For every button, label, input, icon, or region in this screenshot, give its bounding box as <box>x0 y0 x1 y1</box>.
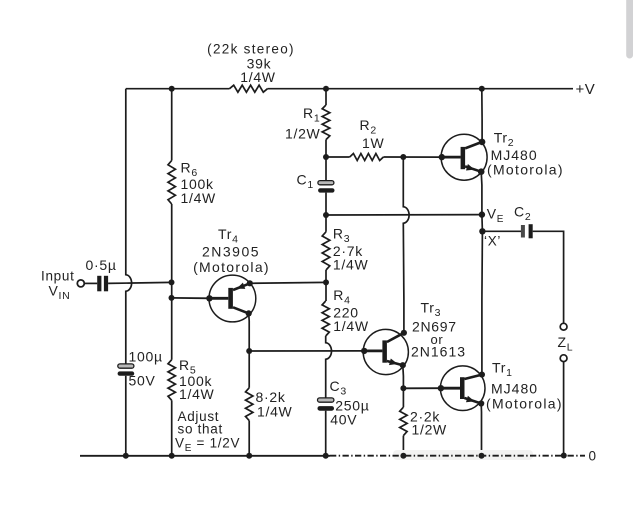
svg-text:1/4W: 1/4W <box>257 404 293 420</box>
label 8.2k value <box>256 389 293 420</box>
wire rail to R6 <box>171 89 173 161</box>
transistor Tr3 2N697 <box>361 329 408 374</box>
wire R2 node down to hop <box>402 157 404 208</box>
wire Tr4 collector down <box>248 313 251 351</box>
wire Tr3 emitter down <box>402 365 405 388</box>
node VE <box>479 211 485 217</box>
capacitor 0.5u <box>97 276 108 292</box>
svg-text:(22k stereo): (22k stereo) <box>207 42 295 57</box>
capacitor C1 <box>318 181 335 193</box>
junction 0V/left rail <box>123 453 129 459</box>
wire 8.2k to 0V rail <box>248 421 250 456</box>
label R2 value <box>362 135 384 151</box>
junction R1/R2/C1 <box>323 154 329 160</box>
label R2 <box>360 117 377 137</box>
capacitor 100u 50V <box>118 364 135 376</box>
svg-text:1/4W: 1/4W <box>179 386 215 402</box>
svg-text:MJ480: MJ480 <box>491 381 538 397</box>
junction Tr3 emitter/2.2k/Tr1 base <box>400 385 406 391</box>
wire +V supply rail <box>126 88 573 90</box>
junction 0V/C3 <box>323 453 329 459</box>
junction 0V/Tr1 emitter <box>479 453 485 459</box>
resistor 2.2k <box>400 407 407 435</box>
wire R3 to R4 <box>325 270 327 301</box>
wire hop to C3 <box>325 359 327 399</box>
wire 100u cap to 0V rail <box>125 376 127 456</box>
label R3 <box>333 226 350 246</box>
svg-text:40V: 40V <box>330 412 357 428</box>
resistor R1 <box>322 105 330 140</box>
label 0.5u value <box>86 257 117 273</box>
svg-text:Input: Input <box>41 269 75 284</box>
wire left rail upper <box>125 89 127 276</box>
watermark smudge <box>393 450 533 460</box>
node Tr4 base junction <box>169 295 175 301</box>
wire Tr4 emitter to R3/R4 node <box>250 281 326 284</box>
terminal ZL bottom <box>560 355 567 362</box>
label C3 <box>330 378 347 398</box>
wire X to C2 <box>482 230 521 232</box>
wire C 0.5u to bias node <box>108 282 171 283</box>
svg-text:+V: +V <box>576 81 596 98</box>
svg-text:1/4W: 1/4W <box>181 190 217 206</box>
junction 0V/2.2k <box>400 453 406 459</box>
junction rail/R1 <box>323 86 329 92</box>
wire rail to R1 <box>325 89 327 105</box>
wire R4 to hop <box>325 336 327 344</box>
wire R3 top <box>325 215 327 232</box>
wire R2 to Tr2 base <box>383 156 441 158</box>
svg-text:1/2W: 1/2W <box>285 126 321 142</box>
wire left rail to C 100u <box>125 291 127 365</box>
wire rail to Tr2 collector <box>481 89 483 142</box>
transistor Tr1 MJ480 <box>438 366 485 411</box>
wire hop over Tr3 base line <box>326 343 332 359</box>
wire node to R2 <box>326 156 350 158</box>
wire Tr3 emitter to Tr1 base <box>403 387 441 389</box>
label Tr3 type <box>411 319 466 360</box>
label Tr1 type <box>486 381 563 412</box>
svg-text:100µ: 100µ <box>129 349 163 365</box>
svg-text:0: 0 <box>589 449 597 464</box>
label R4 value <box>333 305 369 335</box>
junction rail/Tr2 collector <box>479 86 485 92</box>
wire hop over input line <box>126 275 132 291</box>
terminal input <box>77 280 84 287</box>
capacitor C3 <box>318 398 335 411</box>
svg-text:2N1613: 2N1613 <box>411 344 466 360</box>
label Tr4 <box>218 226 239 246</box>
svg-text:1/4W: 1/4W <box>240 69 276 85</box>
node X <box>479 228 485 234</box>
terminal ZL top <box>560 323 567 330</box>
load ZL label <box>558 334 574 354</box>
svg-text:50V: 50V <box>129 373 156 389</box>
wire hop over VE line <box>403 207 409 223</box>
wire X node to Tr1 collector <box>481 231 484 374</box>
label C1 <box>297 172 314 192</box>
label Tr3 <box>421 300 442 320</box>
svg-text:‘X’: ‘X’ <box>484 234 501 249</box>
junction 0V/R5 <box>169 453 175 459</box>
resistor R5 <box>168 360 175 401</box>
label R5 <box>179 357 196 377</box>
resistor R3 <box>322 232 330 270</box>
wire R1 to R2 node <box>325 140 327 157</box>
svg-text:1/4W: 1/4W <box>333 257 369 273</box>
wire C2 to ZL <box>533 231 564 323</box>
wire 2.2k to 0V rail <box>402 436 404 456</box>
resistor R6 <box>168 161 175 205</box>
junction 0V/8.2k <box>246 453 252 459</box>
label 50V value <box>129 373 156 389</box>
label Tr4 type <box>193 244 270 276</box>
resistor 39k (22k stereo) <box>230 85 268 92</box>
label R5 value <box>179 373 215 402</box>
resistor 8.2k <box>246 388 253 421</box>
label R6 <box>181 160 198 180</box>
label R1 value <box>285 126 321 142</box>
resistor R2 <box>350 154 384 161</box>
label R4 <box>333 287 350 307</box>
label R6 value <box>181 176 217 206</box>
wire node to 2.2k <box>402 388 404 407</box>
wire Tr2 emitter to VE node <box>480 172 483 215</box>
wire C3 to 0V rail <box>325 411 327 456</box>
label R3 value <box>333 243 369 273</box>
label R1 <box>303 105 320 125</box>
wire 0V rail dashed <box>330 455 585 457</box>
label adjust note <box>175 409 240 454</box>
svg-text:(Motorola): (Motorola) <box>193 259 270 275</box>
wire R5 to 0V rail <box>171 400 173 456</box>
label 100u value <box>129 349 163 365</box>
label X <box>484 234 501 249</box>
svg-text:1/2W: 1/2W <box>412 422 448 438</box>
wire Tr1 emitter to 0V rail <box>480 404 482 456</box>
wire R6 to R5 <box>171 204 173 360</box>
label Input <box>41 269 75 284</box>
svg-text:2N3905: 2N3905 <box>202 244 260 260</box>
label 2.2k value <box>410 409 447 438</box>
transistor Tr2 MJ480 <box>439 134 488 180</box>
wire ZL to 0V rail <box>563 362 565 456</box>
node +V label <box>576 81 596 98</box>
label Tr2 <box>494 130 515 150</box>
svg-text:0·5µ: 0·5µ <box>86 257 117 273</box>
junction 0V/ZL <box>561 453 567 459</box>
node input/bias junction <box>169 279 175 285</box>
wire Tr4 collector to Tr3 base <box>249 350 364 352</box>
resistor R4 <box>322 301 329 336</box>
junction R3/R4/Tr4 emitter <box>323 279 329 285</box>
junction rail/R6 <box>169 86 175 92</box>
svg-text:(Motorola): (Motorola) <box>486 396 563 412</box>
wire bias node to Tr4 base <box>172 297 211 299</box>
wire node to 8.2k <box>248 351 250 388</box>
junction C1/R3 <box>323 212 329 218</box>
wire VE to X <box>481 215 484 232</box>
label C2 <box>514 204 531 224</box>
svg-text:1W: 1W <box>362 135 384 151</box>
label C3 value <box>330 398 369 428</box>
label Tr1 <box>492 360 513 380</box>
label Tr2 type <box>487 147 564 178</box>
wire input terminal to C 0.5u <box>84 282 97 284</box>
svg-text:(Motorola): (Motorola) <box>487 162 564 178</box>
svg-text:so that: so that <box>178 422 223 437</box>
scrollbar thumb <box>626 0 633 59</box>
label VE <box>487 206 504 226</box>
wire node to C1 <box>325 157 327 181</box>
wire hop to Tr3 collector <box>402 223 405 333</box>
junction Tr4 collector/8.2k <box>246 348 252 354</box>
capacitor C2 <box>521 224 533 238</box>
svg-text:1/4W: 1/4W <box>333 318 369 334</box>
transistor Tr4 2N3905 <box>206 275 256 322</box>
label 39k value <box>207 42 295 86</box>
label VIN <box>49 283 71 303</box>
wire 0V rail solid <box>80 455 330 457</box>
label 0V <box>589 449 597 464</box>
junction R2/Tr3 collector line <box>400 154 406 160</box>
wire C1 node to VE node <box>326 214 482 216</box>
wire C1 to VE line <box>325 193 327 215</box>
